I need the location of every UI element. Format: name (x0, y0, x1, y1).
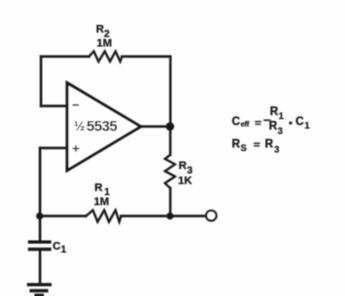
wire C1 to ground (39, 250, 41, 284)
svg-text:eff: eff (241, 119, 250, 128)
equation Rs term (232, 138, 247, 153)
svg-text:R: R (179, 160, 187, 172)
equation R3 term (265, 138, 279, 154)
equation equals sign 2 (254, 143, 259, 146)
svg-text:R: R (269, 121, 278, 133)
svg-text:R: R (270, 106, 279, 118)
svg-text:C: C (232, 116, 240, 128)
svg-text:1: 1 (279, 111, 284, 121)
svg-text:1: 1 (305, 120, 310, 130)
equation Ceff term (232, 116, 250, 128)
junction output node (166, 123, 174, 131)
resistor R1 (86, 210, 121, 222)
op-amp minus pin mark (73, 104, 78, 106)
wire inverting input stub (41, 105, 68, 107)
svg-text:½: ½ (74, 119, 85, 134)
wire out junction to terminal (170, 215, 206, 217)
equation equals sign 1 (256, 122, 261, 125)
value 1M of R1 (94, 196, 109, 208)
wire top feedback right segment (122, 55, 170, 57)
op-amp U1 half 5535 (67, 83, 140, 170)
label C1 (53, 240, 67, 255)
resistor R2 (89, 51, 122, 61)
wire R1 to output junction (121, 215, 170, 217)
junction node A (36, 213, 43, 220)
wire node A to R1 (40, 215, 86, 217)
capacitor C1 (30, 242, 50, 249)
wire op-amp output (141, 125, 171, 127)
svg-text:1K: 1K (178, 175, 192, 187)
wire top feedback left segment (41, 55, 89, 57)
wire left vertical from non-inverting input to node A (39, 148, 41, 216)
label R1 (95, 182, 111, 198)
svg-text:3: 3 (274, 144, 279, 154)
op-amp plus pin mark (73, 146, 78, 151)
svg-text:R: R (96, 23, 104, 35)
resistor R3 (165, 155, 175, 188)
equation dot operator (289, 122, 292, 125)
equation numerator R1 (270, 106, 284, 121)
svg-text:1M: 1M (94, 196, 109, 208)
wire left vertical to inverting input (40, 57, 42, 107)
junction out bottom node (167, 213, 174, 220)
wire R3 bottom to out node (169, 188, 171, 216)
equation denominator R3 (269, 121, 283, 137)
svg-text:C: C (53, 240, 61, 252)
svg-text:R: R (95, 182, 103, 194)
wire node A to C1 (39, 216, 41, 241)
svg-text:5535: 5535 (87, 119, 118, 135)
svg-text:R: R (232, 138, 241, 150)
svg-text:C: C (296, 116, 304, 128)
value 1M of R2 (97, 38, 112, 50)
op-amp label half 5535 (74, 119, 117, 135)
svg-text:3: 3 (278, 126, 283, 136)
value 1K of R3 (178, 175, 192, 187)
output terminal (206, 211, 216, 221)
wire non-inverting input stub (40, 147, 68, 149)
label R2 (96, 23, 110, 40)
equation C1 term (296, 116, 310, 130)
svg-text:R: R (265, 138, 274, 150)
svg-text:1M: 1M (97, 38, 112, 50)
wire right vertical feedback (169, 57, 171, 127)
svg-text:1: 1 (61, 244, 67, 255)
equation fraction bar (264, 119, 270, 121)
wire output node down to R3 (169, 127, 171, 156)
ground (29, 285, 50, 296)
svg-text:S: S (241, 143, 247, 153)
label R3 (179, 160, 193, 176)
